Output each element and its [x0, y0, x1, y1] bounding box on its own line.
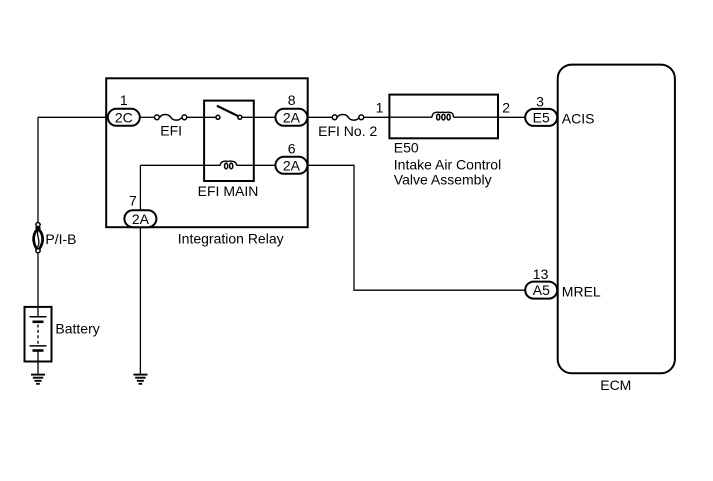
wire: 2C to fuse EFI — [140, 116, 155, 118]
connector 2A (pin 7) — [124, 210, 156, 227]
wire: branch down from coil row to connector 2A pin 7 — [139, 165, 141, 210]
ground (integration relay) — [133, 375, 147, 384]
wire: battery to ground — [37, 362, 39, 374]
wire: 2A pin7 to ground — [139, 227, 141, 374]
label E50 block — [394, 140, 501, 188]
svg-text:8: 8 — [288, 92, 296, 108]
coil EFI MAIN — [220, 161, 237, 169]
wire: fuse EFI No.2 to E50 — [364, 116, 390, 118]
fuse EFI — [155, 115, 187, 121]
svg-text:A5: A5 — [533, 282, 550, 298]
ground (battery) — [31, 375, 45, 384]
svg-text:EFI: EFI — [160, 122, 182, 138]
Integration Relay box — [106, 78, 308, 227]
svg-text:2A: 2A — [283, 157, 301, 173]
svg-text:ACIS: ACIS — [562, 111, 595, 127]
svg-text:Integration Relay: Integration Relay — [178, 230, 284, 246]
svg-text:Intake Air Control: Intake Air Control — [394, 156, 501, 172]
wire: battery feed vertical down to fusible link — [37, 117, 39, 222]
svg-text:3: 3 — [536, 94, 544, 110]
ECM box — [558, 65, 675, 374]
svg-text:13: 13 — [533, 266, 549, 282]
svg-text:2A: 2A — [283, 109, 301, 125]
svg-text:E5: E5 — [533, 110, 550, 126]
wire: row2 from pin7 branch to EFI MAIN coil — [140, 164, 220, 166]
EFI MAIN relay box — [204, 101, 254, 181]
fusible link P/I-B — [34, 223, 43, 253]
connector E5 — [525, 109, 557, 126]
svg-text:ECM: ECM — [600, 377, 631, 393]
wire: fusible link to battery — [37, 253, 39, 308]
svg-text:7: 7 — [129, 192, 137, 208]
wire: fuse EFI to relay contact — [187, 116, 216, 118]
wire inside E50 to coil — [389, 116, 432, 118]
wire: relay contact to connector 2A pin 8 — [242, 116, 276, 118]
battery — [25, 307, 52, 362]
connector 2A (pin 8) — [275, 109, 307, 126]
svg-text:6: 6 — [288, 140, 296, 156]
fuse EFI No. 2 — [332, 115, 363, 121]
connector 2C — [108, 109, 140, 126]
svg-text:EFI MAIN: EFI MAIN — [198, 183, 259, 199]
svg-text:1: 1 — [376, 100, 384, 116]
svg-text:Valve Assembly: Valve Assembly — [394, 172, 492, 188]
svg-text:2A: 2A — [132, 211, 150, 227]
svg-text:P/I-B: P/I-B — [45, 231, 76, 247]
wire: 2A pin8 to fuse EFI No.2 — [307, 116, 332, 118]
svg-text:2: 2 — [502, 100, 510, 116]
svg-text:1: 1 — [120, 92, 128, 108]
wire: coil to connector 2A pin 6 — [237, 164, 277, 166]
svg-text:2C: 2C — [115, 109, 133, 125]
connector 2A (pin 6) — [275, 157, 307, 174]
wire: battery feed horizontal to connector 2C — [38, 116, 110, 118]
E50 Intake Air Control Valve Assembly box — [389, 95, 498, 139]
svg-text:E50: E50 — [394, 140, 419, 156]
relay contact — [216, 106, 242, 120]
wire from coil to E50 right edge — [453, 116, 498, 118]
connector A5 — [525, 282, 557, 299]
wire: E50 to connector E5 — [498, 116, 526, 118]
svg-text:EFI No. 2: EFI No. 2 — [318, 123, 377, 139]
svg-text:MREL: MREL — [562, 283, 601, 299]
wire: 2A pin6 to MREL (down and right) — [307, 165, 525, 290]
svg-text:Battery: Battery — [55, 321, 99, 337]
coil (intake air control valve solenoid) — [432, 112, 454, 120]
